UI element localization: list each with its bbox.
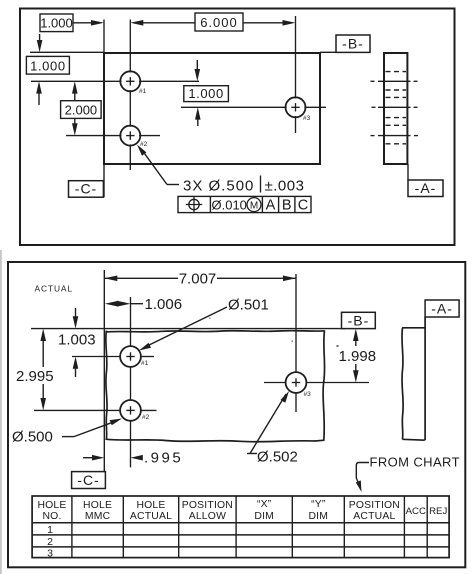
hole #1 horizontal centerline	[31, 80, 199, 82]
hole #3 actual	[286, 372, 307, 393]
dimension 7.007: dim lines	[104, 277, 178, 279]
svg-text:ACTUAL: ACTUAL	[130, 511, 172, 522]
dimension 6.000: dim lines and arrows	[141, 22, 195, 24]
dimension 1.003: upper arrow	[75, 308, 77, 318]
svg-text:1.006: 1.006	[145, 296, 183, 313]
dimension .995: left outside arrow	[83, 457, 95, 459]
svg-text:3: 3	[47, 548, 53, 560]
hole #3 horizontal centerline	[264, 382, 369, 384]
hole #2 horizontal centerline	[34, 409, 157, 411]
svg-text:#2: #2	[142, 414, 150, 421]
svg-text:1: 1	[47, 524, 53, 536]
svg-text:7.007: 7.007	[179, 271, 217, 288]
svg-text:NO.: NO.	[42, 511, 61, 522]
datum C edge line (left edge extension)	[103, 270, 105, 489]
svg-text:1.000: 1.000	[30, 58, 66, 73]
FROM CHART arrow to table	[356, 463, 369, 484]
svg-text:HOLE: HOLE	[37, 500, 66, 511]
bottom figure frame	[8, 262, 465, 567]
side view centerline hole 3	[372, 106, 418, 108]
svg-text:-C-: -C-	[75, 181, 97, 197]
svg-text:#1: #1	[139, 88, 147, 95]
datum -A- bottom fig: right edge line up to box	[424, 317, 426, 440]
svg-text:ACC: ACC	[406, 506, 426, 517]
hole #1/#2 vertical centerline	[130, 297, 132, 467]
hole #1 horizontal centerline	[72, 356, 154, 358]
svg-text:1.000: 1.000	[188, 86, 224, 101]
hole #1 actual	[120, 346, 141, 367]
svg-text:Ø.501: Ø.501	[228, 297, 269, 314]
svg-text:.995: .995	[144, 450, 183, 467]
svg-text:POSITION: POSITION	[182, 500, 233, 511]
top figure frame	[20, 9, 455, 246]
dimension 2.995: dim line and arrows	[40, 329, 46, 341]
svg-text:Ø.500: Ø.500	[12, 429, 53, 446]
dimension 6.000: box	[195, 13, 243, 31]
svg-text:±.003: ±.003	[265, 178, 305, 195]
dimension 1.000 middle: box	[184, 86, 229, 102]
dimension 2.000: box	[61, 101, 102, 119]
dimension 1.000 top-left: box	[40, 14, 73, 32]
svg-text:-B-: -B-	[342, 36, 364, 52]
side view bar actual (wavy)	[402, 328, 425, 440]
side view centerline hole 2	[371, 135, 419, 137]
datum -B- top fig: connector	[320, 51, 336, 53]
svg-text:M: M	[250, 200, 258, 211]
part left edge extension line	[103, 20, 105, 54]
part outline (plan view)	[104, 53, 320, 164]
datum -C- top fig	[69, 181, 104, 198]
svg-text:2.995: 2.995	[16, 368, 54, 385]
hole #3 horizontal centerline	[181, 106, 326, 108]
svg-text:FROM CHART: FROM CHART	[370, 455, 460, 470]
datum -A- bottom fig	[425, 300, 459, 317]
svg-text:-A-: -A-	[415, 180, 437, 196]
svg-text:6.000: 6.000	[200, 15, 238, 30]
svg-text:REJ: REJ	[429, 506, 447, 517]
svg-text:HOLE: HOLE	[83, 500, 112, 511]
dimension 1.998: arrows and text	[353, 329, 359, 341]
svg-text:-C-: -C-	[77, 472, 99, 488]
svg-text:B: B	[282, 198, 292, 214]
chart table outer	[32, 496, 449, 558]
svg-text:MMC: MMC	[85, 511, 111, 522]
svg-text:Ø.502: Ø.502	[257, 449, 298, 466]
svg-text:#3: #3	[304, 391, 312, 398]
top edge extension line	[30, 51, 104, 53]
dimension .995: right outside arrow and text	[131, 455, 143, 461]
hole #3	[286, 97, 306, 117]
feature control frame	[178, 196, 311, 212]
dimension 1.000 left: box	[26, 56, 69, 74]
svg-text:#2: #2	[140, 141, 148, 148]
dimension 1.006: bowtie arrows	[105, 301, 119, 307]
svg-text:Ø.010: Ø.010	[212, 198, 247, 213]
dimension 1.000 top-left: line and right arrow	[73, 22, 93, 24]
hole #2 horizontal centerline	[66, 135, 160, 137]
svg-text:2: 2	[47, 536, 53, 548]
side view hidden hole lines (dashed)	[386, 72, 407, 144]
leader from hole #2 to note	[137, 145, 146, 156]
datum -A- top fig: connector	[407, 164, 409, 180]
hole #1 vertical centerline	[129, 20, 131, 171]
datum -B- bottom fig	[342, 312, 376, 328]
scan edge artifact	[0, 250, 2, 574]
table column lines	[72, 496, 427, 558]
dimension 1.000 left: upper arrow	[39, 34, 41, 42]
svg-text:1.000: 1.000	[40, 16, 73, 31]
side view bar top fig	[384, 53, 407, 164]
svg-text:ACTUAL: ACTUAL	[353, 511, 395, 522]
actual part outline (wavy)	[106, 330, 325, 441]
svg-text:POSITION: POSITION	[349, 500, 400, 511]
hole #2	[120, 126, 140, 146]
dimension 2.000: upper arrow	[72, 81, 78, 93]
datum B edge line (top edge extension)	[31, 328, 345, 330]
svg-text:DIM: DIM	[254, 511, 274, 522]
side view centerline hole 1	[371, 80, 418, 82]
dimension 1.000 middle: lower arrow	[195, 107, 201, 119]
position symbol	[189, 199, 199, 209]
hole #1	[120, 71, 140, 91]
table row lines	[32, 523, 449, 547]
dia .500 leader to hole #2	[62, 436, 74, 438]
hole #3 vertical centerline	[295, 274, 297, 412]
svg-text:ALLOW: ALLOW	[189, 511, 226, 522]
dimension 1.000 left: lower arrow	[36, 81, 42, 93]
svg-text:“X”: “X”	[257, 499, 272, 510]
svg-text:“Y”: “Y”	[311, 499, 326, 510]
datum -C- bottom fig	[72, 472, 106, 489]
dimension 2.000: lower arrow	[74, 118, 76, 124]
hole #2 actual	[120, 400, 141, 421]
svg-text:#3: #3	[303, 115, 311, 122]
svg-text:A: A	[266, 198, 276, 214]
svg-text:2.000: 2.000	[65, 103, 98, 118]
hole #3 vertical centerline	[295, 16, 297, 133]
svg-text:3X Ø.500: 3X Ø.500	[183, 178, 254, 195]
svg-text:-B-: -B-	[348, 312, 370, 328]
svg-text:1.998: 1.998	[339, 348, 377, 365]
datum -A- top fig	[408, 180, 443, 197]
svg-text:1.003: 1.003	[58, 332, 96, 349]
dia .502 leader to hole #3	[247, 453, 257, 455]
svg-text:HOLE: HOLE	[136, 500, 165, 511]
dimension 1.003: lower arrow	[73, 357, 79, 369]
svg-text:DIM: DIM	[308, 511, 328, 522]
dia .501 leader to hole #1	[145, 307, 227, 347]
svg-text:-A-: -A-	[431, 300, 453, 316]
dimension 1.000 middle: upper arrow	[196, 60, 198, 71]
svg-text:#1: #1	[141, 360, 149, 367]
svg-text:C: C	[298, 198, 308, 214]
scan specks	[337, 345, 339, 347]
datum -C- top fig: extension line	[103, 164, 105, 197]
svg-text:ACTUAL: ACTUAL	[35, 284, 73, 294]
datum -B- top fig	[336, 35, 370, 52]
